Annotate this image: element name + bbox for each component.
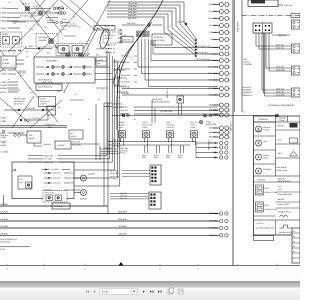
svg-text:SUS-BU: SUS-BU xyxy=(279,117,287,120)
svg-text:B GRN: B GRN xyxy=(0,144,7,147)
svg-text:4B21 - 2C BL: 4B21 - 2C BL xyxy=(42,81,53,84)
svg-text:428 BRN: 428 BRN xyxy=(0,233,8,236)
svg-text:TDEC BLK: TDEC BLK xyxy=(214,113,224,116)
svg-text:SHIELD: SHIELD xyxy=(263,128,270,131)
svg-text:A159 ORG: A159 ORG xyxy=(276,69,285,72)
svg-text:R-T HOSE LT Y-TRLR: R-T HOSE LT Y-TRLR xyxy=(20,15,38,18)
svg-text:COIL: COIL xyxy=(278,139,282,142)
svg-text:SPOT LIGHT: SPOT LIGHT xyxy=(45,192,55,195)
svg-text:MAX BRACKIGE BLACK: MAX BRACKIGE BLACK xyxy=(256,227,276,230)
svg-text:SPEAKER: SPEAKER xyxy=(263,168,272,171)
svg-text:TO DOOR: TO DOOR xyxy=(243,63,252,66)
svg-text:LIGHT: LIGHT xyxy=(142,126,147,129)
svg-text:A686 YEL: A686 YEL xyxy=(276,91,284,94)
svg-text:B ORG: B ORG xyxy=(0,140,7,143)
svg-text:CKOUT BREAKER: CKOUT BREAKER xyxy=(278,193,293,196)
svg-text:LAB LIGHT: LAB LIGHT xyxy=(242,86,253,89)
svg-text:BOW HF2: BOW HF2 xyxy=(122,38,130,41)
svg-text:39A RLD: 39A RLD xyxy=(278,198,286,201)
svg-text:BE B1 BLK: BE B1 BLK xyxy=(110,170,119,173)
svg-text:SN-3B: SN-3B xyxy=(3,59,9,62)
svg-text:B GRN: B GRN xyxy=(0,87,7,90)
svg-text:WH B1 BLK: WH B1 BLK xyxy=(110,175,120,178)
svg-text:(X) TDEC BLK: (X) TDEC BLK xyxy=(160,110,173,113)
svg-text:MCE(S)NA: MCE(S)NA xyxy=(39,36,49,39)
svg-text:TRAC: TRAC xyxy=(206,121,212,124)
svg-text:INDICATOR: INDICATOR xyxy=(206,123,217,126)
svg-text:CONTACTS NO: CONTACTS NO xyxy=(265,208,278,211)
svg-text:HORN: HORN xyxy=(263,156,269,159)
svg-text:B YEL: B YEL xyxy=(0,248,5,251)
svg-text:THROTTLE: THROTTLE xyxy=(105,34,116,37)
svg-text:1 GRN: 1 GRN xyxy=(0,7,6,10)
svg-text:SEE SHT 2: SEE SHT 2 xyxy=(208,139,211,150)
svg-text:THROTTLE: THROTTLE xyxy=(154,36,165,39)
svg-text:ORG: ORG xyxy=(278,152,283,155)
svg-text:B6: B6 xyxy=(71,132,73,135)
svg-text:ORG: ORG xyxy=(178,156,183,159)
svg-text:ORG: ORG xyxy=(166,156,171,159)
svg-text:MBOA YEL: MBOA YEL xyxy=(44,161,53,164)
svg-text:SELECT: SELECT xyxy=(105,37,113,40)
svg-text:SLA BRN: SLA BRN xyxy=(177,21,185,24)
svg-text:425 BRN: 425 BRN xyxy=(0,211,8,214)
svg-text:BO4B ORG: BO4B ORG xyxy=(44,154,54,157)
svg-text:121B ORG: 121B ORG xyxy=(121,81,130,84)
svg-text:1 ORG: 1 ORG xyxy=(0,120,6,123)
svg-text:CEC 7I4B: CEC 7I4B xyxy=(121,61,130,64)
svg-text:5246 BRN: 5246 BRN xyxy=(118,218,127,221)
svg-text:NR B1 BLK: NR B1 BLK xyxy=(110,172,120,175)
svg-text:TTC ORG: TTC ORG xyxy=(44,158,53,161)
svg-text:SPEAKER: SPEAKER xyxy=(54,205,64,208)
svg-text:ORG BRKGE: ORG BRKGE xyxy=(277,166,288,169)
svg-text:DELAYS NS: DELAYS NS xyxy=(40,100,50,103)
svg-text:C5: C5 xyxy=(293,250,295,253)
svg-text:CEC 8I4C: CEC 8I4C xyxy=(121,55,130,58)
svg-text:REAR STEER: REAR STEER xyxy=(14,98,26,101)
svg-text:C CABLE: C CABLE xyxy=(0,151,9,154)
svg-text:1Z0A ORG: 1Z0A ORG xyxy=(120,112,130,115)
svg-text:SEE SHT 2: SEE SHT 2 xyxy=(230,121,233,131)
svg-text:THROTTLE: THROTTLE xyxy=(96,48,107,51)
svg-text:ORG: ORG xyxy=(154,156,159,159)
svg-text:CEC 610A CLR: CEC 610A CLR xyxy=(196,45,210,48)
svg-text:ROAR BRN: ROAR BRN xyxy=(46,60,57,63)
svg-text:B4: B4 xyxy=(293,245,295,248)
svg-text:C4 BLK: C4 BLK xyxy=(70,23,77,26)
svg-text:2 GRN: 2 GRN xyxy=(0,12,6,15)
svg-text:A678 YEL: A678 YEL xyxy=(276,44,284,47)
svg-text:PROCESSING: PROCESSING xyxy=(278,180,291,183)
svg-text:LI GHT: LI GHT xyxy=(243,61,250,64)
svg-text:CEC 9I7B2: CEC 9I7B2 xyxy=(121,68,130,71)
svg-text:COIL: COIL xyxy=(265,187,269,190)
svg-text:ALARM: ALARM xyxy=(58,144,65,147)
svg-text:A678 YEL: A678 YEL xyxy=(276,47,284,50)
svg-text:121C ORG: 121C ORG xyxy=(121,86,130,89)
svg-text:THMAL RESET: THMAL RESET xyxy=(278,203,290,206)
svg-text:394B YEL: 394B YEL xyxy=(121,109,129,112)
svg-text:604C ORG: 604C ORG xyxy=(113,139,122,142)
svg-text:SB X RST J: SB X RST J xyxy=(14,103,24,106)
svg-text:CONNS: CONNS xyxy=(279,119,287,122)
svg-text:5206 BRN: 5206 BRN xyxy=(118,211,127,214)
svg-text:2 ORG: 2 ORG xyxy=(0,117,6,120)
svg-text:TO DOOR: TO DOOR xyxy=(242,89,251,92)
svg-text:CUR: CUR xyxy=(278,188,283,191)
svg-text:CEC BI34 BLK: CEC BI34 BLK xyxy=(196,51,209,54)
svg-text:COIL: COIL xyxy=(265,204,269,207)
svg-text:Y-1234-123-B: Y-1234-123-B xyxy=(44,123,56,126)
svg-text:4 ORG: 4 ORG xyxy=(0,50,7,53)
svg-text:NOISE ALRM: NOISE ALRM xyxy=(277,169,288,172)
svg-text:1 / 5: 1 / 5 xyxy=(102,290,108,294)
svg-text:LIGHT: LIGHT xyxy=(118,126,123,129)
svg-text:5246 GRN: 5246 GRN xyxy=(113,106,123,109)
svg-text:ALARM: ALARM xyxy=(3,62,10,65)
svg-text:3--A--3--P: 3--A--3--P xyxy=(257,222,266,225)
svg-text:522B BRN: 522B BRN xyxy=(121,92,130,95)
svg-text:A686 YEL: A686 YEL xyxy=(276,66,284,69)
svg-text:A3: A3 xyxy=(293,240,295,243)
svg-text:BUZZER: BUZZER xyxy=(88,173,96,176)
svg-text:507A BLK: 507A BLK xyxy=(113,142,121,145)
svg-text:T-RD BLK: T-RD BLK xyxy=(47,19,56,22)
svg-text:A050 VIO: A050 VIO xyxy=(53,172,61,175)
svg-text:201C BLK: 201C BLK xyxy=(72,141,81,144)
svg-text:REASON: REASON xyxy=(39,39,48,42)
svg-text:L ORG: L ORG xyxy=(0,136,6,139)
svg-text:B YEL: B YEL xyxy=(0,132,5,135)
svg-text:A060 VIO: A060 VIO xyxy=(53,182,61,185)
svg-text:4 Y61 GRN: 4 Y61 GRN xyxy=(50,168,59,171)
svg-text:GENERAL: GENERAL xyxy=(259,118,269,121)
svg-text:EXTERNAL LIGHT GROUP: EXTERNAL LIGHT GROUP xyxy=(268,104,294,107)
svg-text:5206 BLK: 5206 BLK xyxy=(113,103,122,106)
svg-text:A159 ORG: A159 ORG xyxy=(276,94,285,97)
svg-text:LIGHT: LIGHT xyxy=(263,140,268,143)
svg-text:LIGHT(S): LIGHT(S) xyxy=(166,126,174,129)
svg-text:R04A RED: R04A RED xyxy=(128,17,137,20)
svg-text:3*1.0: 3*1.0 xyxy=(278,185,282,188)
svg-text:THERMAL READ: THERMAL READ xyxy=(278,211,292,214)
svg-text:RELAYS: RELAYS xyxy=(258,178,266,181)
svg-text:SENSE GND: SENSE GND xyxy=(0,241,11,244)
svg-text:RIO: RIO xyxy=(29,134,33,137)
svg-text:L ORG: L ORG xyxy=(0,81,7,84)
svg-text:2 BLK: 2 BLK xyxy=(0,27,6,30)
svg-text:POWER VV: POWER VV xyxy=(242,94,253,97)
svg-text:BEEPER: BEEPER xyxy=(80,197,88,200)
svg-text:MAGN YEL: MAGN YEL xyxy=(104,24,115,27)
svg-text:AVAC BLK: AVAC BLK xyxy=(127,22,136,25)
svg-text:(AR)LPS: (AR)LPS xyxy=(40,103,48,106)
svg-text:WATER: WATER xyxy=(278,125,285,128)
svg-text:R2: R2 xyxy=(293,235,295,238)
svg-text:7106 BRN: 7106 BRN xyxy=(118,232,127,235)
svg-text:REAR: REAR xyxy=(29,137,35,140)
svg-text:ORG: ORG xyxy=(142,156,147,159)
svg-text:STEER UNLOCKED: STEER UNLOCKED xyxy=(152,101,170,104)
svg-text:SEE SHT 2: SEE SHT 2 xyxy=(166,88,169,98)
svg-text:CONTACTS NO: CONTACTS NO xyxy=(265,191,278,194)
svg-text:426 BRN: 426 BRN xyxy=(0,218,8,221)
svg-text:A686 YEL: A686 YEL xyxy=(276,88,284,91)
svg-text:427 BRN: 427 BRN xyxy=(0,225,8,228)
svg-text:LAB RELAY: LAB RELAY xyxy=(242,91,253,94)
svg-text:SEE SHT 3: SEE SHT 3 xyxy=(237,21,240,32)
svg-text:T?6C BLK: T?6C BLK xyxy=(32,117,41,120)
svg-text:5 ORG: 5 ORG xyxy=(0,16,6,19)
svg-text:7076 BRN: 7076 BRN xyxy=(118,225,127,228)
svg-text:A060 VIO: A060 VIO xyxy=(53,177,61,180)
svg-text:R ORG: R ORG xyxy=(0,84,7,87)
svg-text:BOSA ORG: BOSA ORG xyxy=(121,74,131,77)
svg-text:RR DEF: RR DEF xyxy=(2,33,10,36)
svg-text:B YEL: B YEL xyxy=(0,91,7,94)
svg-text:STEER: STEER xyxy=(40,98,46,101)
svg-text:(RH)-STEERING CAL: (RH)-STEERING CAL xyxy=(0,238,17,241)
svg-text:LIGHT: LIGHT xyxy=(190,126,195,129)
svg-text:420 BRN: 420 BRN xyxy=(0,203,8,206)
svg-text:BF8 BLK: BF8 BLK xyxy=(119,152,127,155)
svg-text:T?6B ORG: T?6B ORG xyxy=(26,107,35,110)
svg-text:121A BLK: 121A BLK xyxy=(43,143,52,146)
svg-text:REAR: REAR xyxy=(71,135,77,138)
svg-text:REAR AXLE: REAR AXLE xyxy=(152,98,163,101)
svg-text:5 RED: 5 RED xyxy=(0,20,6,23)
svg-text:TDEC BU+: TDEC BU+ xyxy=(284,4,293,7)
svg-text:E1: E1 xyxy=(293,230,295,233)
svg-text:WISHES(NS): WISHES(NS) xyxy=(14,100,25,103)
svg-text:A686 YEL: A686 YEL xyxy=(278,34,286,37)
svg-text:DASH REAR DN: DASH REAR DN xyxy=(38,86,53,89)
svg-text:1 GRN: 1 GRN xyxy=(0,73,6,76)
